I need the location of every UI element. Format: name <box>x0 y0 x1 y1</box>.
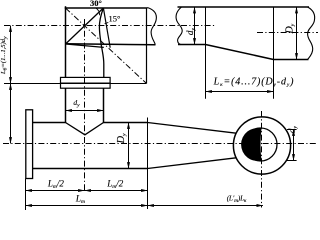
elbow top line / horizontal pipe top <box>65 7 148 9</box>
reducer cone end line <box>273 7 275 99</box>
svg-text:dу: dу <box>288 125 299 133</box>
elbow horizontal centerline <box>4 25 216 27</box>
svg-text:(L′т)Lк: (L′т)Lк <box>227 195 247 205</box>
tee flange <box>26 110 33 179</box>
tee right extension line <box>147 118 149 210</box>
svg-text:dу: dу <box>73 98 80 109</box>
svg-text:dу: dу <box>186 27 197 35</box>
end-view inner circle <box>244 128 277 161</box>
elbow 15deg cut line <box>103 8 110 48</box>
reducer cone bottom slant <box>206 45 274 60</box>
svg-text:Lт/2: Lт/2 <box>47 178 65 190</box>
branch d dimension <box>66 110 104 112</box>
horizontal pipe bottom line <box>66 44 156 45</box>
15deg angle arc <box>105 22 109 23</box>
tee main pipe top line right of branch <box>104 122 148 124</box>
L/2 dimension right segment <box>85 190 148 192</box>
circle d lower extension <box>287 160 297 162</box>
svg-text:30°: 30° <box>90 0 102 8</box>
elbow flange upper plate <box>61 77 111 83</box>
tee left extension line <box>25 179 27 211</box>
tee main pipe bottom line <box>33 168 148 170</box>
svg-text:Dу: Dу <box>116 133 128 145</box>
Lt' Lk dimension <box>148 205 263 207</box>
tee branch V weld cut <box>66 123 104 135</box>
elbow pipe break wavy line <box>147 8 156 45</box>
left lower dimension line <box>10 84 12 144</box>
elbow flange lower plate <box>61 83 111 88</box>
reducer left wavy break <box>176 7 182 45</box>
tee main pipe top line left of branch <box>33 122 66 124</box>
30deg angle arc <box>96 8 100 15</box>
reducer big-end centerline <box>257 32 318 34</box>
elbow 45deg bisector dash-dot <box>66 8 147 83</box>
end-view crescent (bend seen axially) <box>241 128 261 161</box>
end-view outer circle <box>233 117 290 174</box>
extension line from Lb dim through flange mid to pipe break <box>4 83 147 85</box>
reducer Lk dimension <box>206 91 274 93</box>
reducer cone start line <box>205 7 207 99</box>
elbow pipe break straight end <box>146 8 148 84</box>
reducer right wavy break <box>308 7 315 60</box>
tee horizontal centerline <box>3 143 318 145</box>
reducer top line <box>178 6 310 8</box>
reducer big-end bottom line <box>274 59 309 61</box>
Lt dimension <box>26 205 148 207</box>
svg-text:Lк=(4...7)(Dу-dу): Lк=(4...7)(Dу-dу) <box>213 77 295 89</box>
svg-text:Lт/2: Lт/2 <box>106 178 124 190</box>
circle d upper extension <box>287 129 297 131</box>
svg-text:15°: 15° <box>109 13 121 23</box>
branch vertical centerline <box>84 19 86 191</box>
svg-text:Dу: Dу <box>285 23 297 34</box>
elbow lower 15deg joint line <box>66 44 104 47</box>
reducer d dimension <box>194 7 196 45</box>
tee D dimension <box>128 123 130 169</box>
svg-text:Lб=(1...1,5)dу: Lб=(1...1,5)dу <box>0 36 9 75</box>
branch pipe left edge below flange <box>65 88 67 122</box>
reducer small-end bottom line <box>178 44 206 46</box>
tee taper bottom line <box>148 158 237 169</box>
svg-text:Lт: Lт <box>75 194 85 205</box>
L/2 dimension left segment <box>26 190 85 192</box>
circle d dimension <box>293 130 295 161</box>
left dimension Lb line <box>10 26 12 84</box>
branch pipe right edge below flange <box>103 88 105 122</box>
elbow left outer edge <box>65 6 67 77</box>
tee taper top line <box>148 123 237 134</box>
circle vertical centerline <box>261 111 263 208</box>
elbow 45deg weld joint diagonal <box>66 8 104 44</box>
elbow right edge curve down to flange <box>99 8 103 77</box>
reducer D dimension <box>296 7 298 60</box>
